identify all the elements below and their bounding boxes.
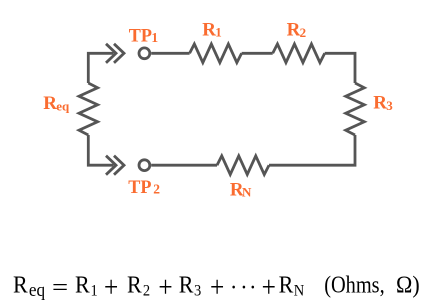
wire bottom-left segment: [88, 135, 113, 165]
svg-text:R: R: [202, 19, 216, 40]
label R1: [202, 19, 222, 40]
resistor Req zigzag: [79, 83, 98, 135]
arrow chevron 2 top: [114, 44, 124, 63]
svg-text:eq: eq: [29, 279, 45, 300]
svg-text:eq: eq: [56, 98, 70, 113]
terminal TP1 circle: [139, 48, 150, 59]
svg-text:2: 2: [300, 25, 307, 40]
svg-text:1: 1: [215, 24, 222, 39]
svg-text:N: N: [294, 283, 305, 300]
svg-text:Ω): Ω): [396, 272, 420, 298]
resistor R1 zigzag: [190, 44, 242, 63]
svg-text:TP: TP: [129, 26, 153, 47]
svg-text:N: N: [242, 184, 252, 199]
svg-text:+: +: [104, 270, 118, 303]
formula equation: [13, 270, 420, 303]
svg-text:·: ·: [249, 274, 256, 300]
svg-text:R: R: [287, 20, 301, 41]
svg-text:+: +: [210, 270, 224, 303]
wire RN to TP2: [151, 164, 217, 167]
resistor R3 zigzag: [346, 83, 365, 135]
svg-text:2: 2: [153, 182, 160, 197]
svg-text:3: 3: [194, 283, 201, 300]
label TP1: [129, 26, 159, 47]
terminal TP2 circle: [139, 160, 150, 171]
label TP2: [128, 177, 160, 198]
arrow chevron 1 bottom: [106, 156, 116, 175]
svg-text:2: 2: [143, 283, 150, 300]
wire top-right corner: [325, 53, 355, 83]
svg-text:R: R: [75, 272, 90, 298]
svg-text:1: 1: [91, 283, 98, 300]
label Req: [43, 93, 70, 114]
resistor R2 zigzag: [273, 44, 325, 63]
svg-text:=: =: [52, 274, 68, 300]
svg-text:R: R: [373, 93, 387, 114]
svg-text:R: R: [179, 272, 194, 298]
svg-text:·: ·: [240, 274, 247, 300]
label R2: [287, 20, 307, 41]
resistor RN zigzag: [217, 156, 269, 175]
wire top-left segment: [88, 53, 113, 83]
svg-text:1: 1: [151, 30, 158, 45]
arrow chevron 1 top: [106, 44, 116, 63]
svg-text:R: R: [13, 272, 28, 298]
svg-text:+: +: [262, 270, 276, 303]
label R3: [373, 93, 393, 114]
label RN: [230, 180, 252, 201]
svg-text:·: ·: [230, 274, 237, 300]
wire R1 to R2: [242, 52, 273, 55]
svg-text:R: R: [279, 272, 294, 298]
svg-text:+: +: [158, 270, 172, 303]
svg-text:TP: TP: [128, 177, 152, 198]
svg-text:3: 3: [386, 98, 393, 113]
wire TP1 to R1: [151, 52, 189, 55]
svg-text:R: R: [127, 272, 142, 298]
arrow chevron 2 bottom: [114, 156, 124, 175]
svg-text:R: R: [43, 93, 57, 114]
wire bottom-right corner: [269, 135, 355, 165]
svg-text:(Ohms,: (Ohms,: [324, 272, 385, 298]
